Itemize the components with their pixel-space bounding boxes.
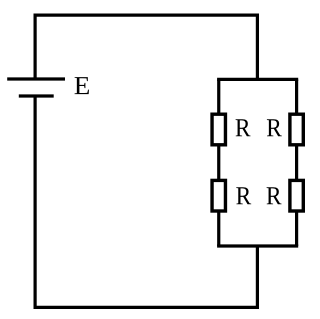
wire: battery positive terminal up, across top, down to parallel network top node <box>35 15 257 81</box>
wire: parallel network top rail <box>217 78 298 81</box>
resistor R (lower right) <box>290 180 303 211</box>
wire: right parallel branch vertical <box>295 79 298 246</box>
battery E: short negative plate <box>19 94 54 97</box>
wire: bottom node down, across bottom, up to battery negative terminal <box>35 96 257 307</box>
label R (upper left resistor) <box>236 119 251 136</box>
label R (lower right resistor) <box>267 187 282 204</box>
wire: parallel network bottom rail <box>217 244 298 247</box>
label R (lower left resistor) <box>236 187 251 204</box>
resistor R (lower left) <box>212 180 225 211</box>
wire: left parallel branch vertical <box>217 79 220 246</box>
battery E: long positive plate <box>7 77 65 80</box>
resistor R (upper right) <box>290 114 303 145</box>
label E (battery) <box>75 77 89 94</box>
resistor R (upper left) <box>212 114 225 145</box>
label R (upper right resistor) <box>267 119 282 136</box>
